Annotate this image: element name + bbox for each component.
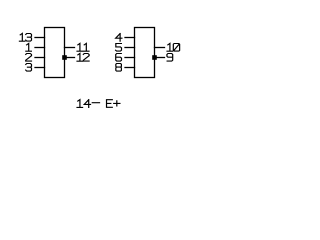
U2 pin 5 char "5" [116, 44, 122, 52]
U2 pin 6 char "6" [116, 54, 122, 62]
U2 pin 9 wire [155, 57, 165, 59]
U1 pin 2 char "2" [26, 54, 32, 62]
U1 pin 1 char "1" [26, 43, 32, 51]
U2 pin 4 wire [125, 37, 135, 39]
U1 pin 1 wire [35, 47, 45, 49]
IC symbol U1 (left component box) [45, 28, 65, 78]
U1 pin 12 wire [65, 57, 75, 59]
U1 pin 11 char "1" [83, 43, 89, 51]
caption char "+" [114, 101, 120, 106]
U2 pin 6 wire [125, 57, 135, 59]
U1 pin 3 wire [35, 67, 45, 69]
U2 pin 9 char "9" [167, 54, 173, 62]
U1 pin 11 char "1" [77, 43, 83, 51]
U2 pin 10 char "1" [167, 43, 173, 51]
U2 pin 8 wire [125, 67, 135, 69]
U1 pin 12 char "1" [77, 53, 83, 61]
U1 pin 13 char "3" [26, 34, 32, 42]
caption char "E" [107, 100, 113, 108]
U2 pin 10 wire [155, 47, 165, 49]
U1 pin 13 char "1" [19, 33, 25, 41]
U1 pin 3 char "3" [26, 64, 32, 72]
caption char "-" [92, 102, 99, 104]
U1 pin 12 polarity marker (filled square) [62, 55, 67, 60]
IC symbol U2 (right component box) [135, 28, 155, 78]
caption char "1" [77, 100, 83, 108]
U1 pin 2 wire [35, 57, 45, 59]
U1 pin 12 char "2" [83, 54, 89, 62]
U2 pin 5 wire [125, 47, 135, 49]
U2 pin 4 char "4" [116, 34, 122, 42]
U2 pin 8 char "8" [116, 64, 122, 72]
U2 pin 9 polarity marker (filled square) [152, 55, 157, 60]
U1 pin 13 wire [35, 37, 45, 39]
caption char "4" [84, 100, 90, 108]
U2 pin 10 char "0" [173, 44, 179, 52]
U1 pin 11 wire [65, 47, 75, 49]
